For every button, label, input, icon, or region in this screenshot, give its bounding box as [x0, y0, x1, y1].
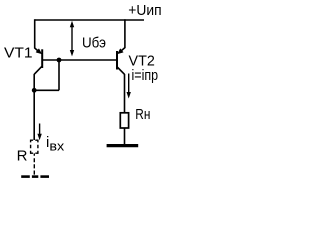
Uбэ measurement double arrow: [70, 21, 74, 57]
svg-text:i=iпр: i=iпр: [132, 67, 159, 84]
ground (left, dashed): [21, 175, 49, 178]
ground (right, solid): [107, 144, 139, 147]
transistor VT2 emitter arrowhead: [118, 49, 124, 54]
wire diode-connect loop vertical: [58, 60, 60, 90]
wire VT1 emitter from rail: [35, 19, 39, 51]
node A base-collector junction dot: [57, 58, 62, 63]
svg-text:VT1: VT1: [4, 45, 33, 62]
wire dashed to ground: [33, 153, 35, 174]
node B collector-input junction dot: [32, 88, 37, 93]
transistor VT1 emitter arrowhead: [36, 49, 42, 54]
svg-text:+Uип: +Uип: [128, 2, 161, 19]
resistor Rн: [120, 113, 128, 128]
arrow input current Iвх: [37, 124, 41, 141]
wire base line VT1-VT2: [43, 59, 116, 61]
resistor R (dashed outline): [30, 140, 38, 154]
wire VT2 emitter from rail: [121, 19, 125, 51]
wire VT1 collector diagonal: [34, 66, 42, 74]
arrow output current i=iпр: [127, 74, 131, 99]
wire VT2 collector diagonal: [117, 67, 124, 74]
wire Rн to ground: [124, 128, 126, 145]
wire diode-connect loop horizontal: [34, 89, 59, 91]
wire VT2 collector down to Rн: [124, 74, 126, 113]
transistor VT1 base bar: [41, 49, 43, 68]
svg-text:R: R: [17, 147, 28, 164]
wire +Uип power rail: [35, 19, 144, 21]
svg-text:Uбэ: Uбэ: [82, 35, 106, 52]
svg-text:Rн: Rн: [135, 106, 150, 123]
svg-text:вх: вх: [49, 138, 64, 153]
transistor VT2 base bar: [116, 51, 118, 70]
wire VT1 collector down to R: [33, 74, 35, 140]
